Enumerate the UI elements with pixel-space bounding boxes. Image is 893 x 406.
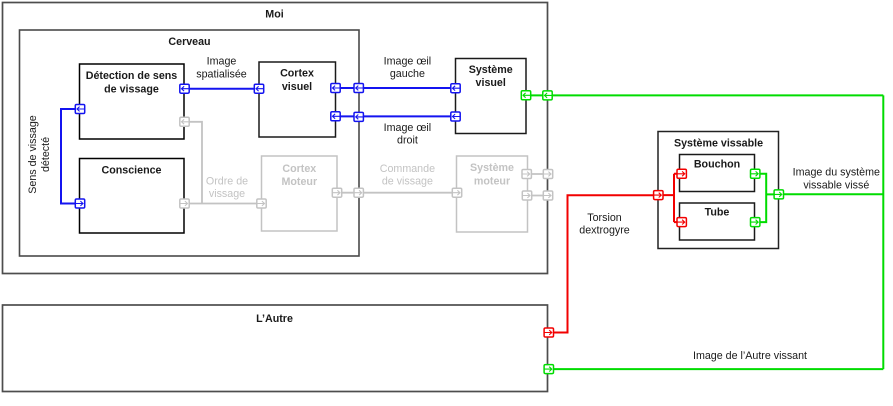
svg-text:Ordre de: Ordre de: [206, 176, 248, 188]
svg-text:Système: Système: [469, 64, 513, 76]
port Systeme moteur left (gray): [452, 188, 461, 197]
port Tube left (red, in): [677, 218, 686, 227]
wire Sens de vissage detecte (Detection to Conscience): [61, 109, 80, 204]
svg-text:détecté: détecté: [40, 137, 52, 172]
svg-text:Détection de sens: Détection de sens: [86, 70, 178, 82]
port Moi edge gray bottom: [543, 191, 552, 200]
svg-text:dextrogyre: dextrogyre: [579, 225, 630, 237]
wire torsion split to Bouchon and Tube: [658, 174, 681, 222]
svg-text:visuel: visuel: [282, 81, 312, 93]
wire Ordre de vissage (Conscience to Cortex Moteur): [185, 203, 262, 205]
box Moi: [3, 3, 548, 274]
svg-text:Image du système: Image du système: [793, 167, 880, 179]
port Systeme moteur right top (gray): [522, 170, 531, 179]
wire Image spatialisee (Cortex visuel to Detection): [185, 88, 260, 90]
svg-text:Image œil: Image œil: [384, 122, 432, 134]
box Systeme visuel: [456, 59, 527, 134]
svg-text:Cortex: Cortex: [280, 68, 314, 80]
svg-text:Torsion: Torsion: [587, 212, 622, 224]
svg-text:Sens de vissage: Sens de vissage: [27, 115, 39, 193]
port Cortex visuel right bottom (blue): [331, 112, 340, 121]
wire Image de l'Autre vissant: [549, 368, 884, 370]
svg-text:droit: droit: [397, 134, 418, 146]
wire Bouchon/Tube images join: [755, 174, 779, 222]
svg-text:moteur: moteur: [474, 175, 510, 187]
port Systeme visuel left top (blue): [451, 84, 460, 93]
svg-text:Cerveau: Cerveau: [168, 36, 210, 48]
box Tube: [680, 203, 755, 240]
port Bouchon right (green, out): [751, 169, 760, 178]
svg-text:de vissage: de vissage: [382, 175, 433, 187]
svg-text:Cortex: Cortex: [282, 163, 316, 175]
label Sens de vissage detecte (rotated): [27, 115, 52, 193]
port Systeme vissable right (green): [774, 190, 783, 199]
svg-text:de vissage: de vissage: [104, 83, 159, 95]
port Conscience left (blue, in): [75, 199, 84, 208]
wire Commande de vissage (Cortex Moteur to Systeme moteur): [337, 192, 457, 194]
box Conscience: [80, 159, 185, 234]
box Cerveau: [20, 30, 360, 256]
port Cerveau edge gray: [354, 188, 363, 197]
port Cortex Moteur right (gray): [332, 188, 341, 197]
box Bouchon: [680, 155, 755, 192]
wire branch to Detection (efference copy): [185, 122, 203, 204]
port L'Autre right top (red, out): [544, 328, 553, 337]
svg-text:Tube: Tube: [705, 207, 730, 219]
box Cortex Moteur (inactive): [262, 156, 338, 231]
svg-text:Moi: Moi: [265, 9, 283, 21]
port Systeme visuel left bottom (blue): [451, 112, 460, 121]
svg-text:vissable vissé: vissable vissé: [803, 179, 869, 191]
port Cerveau edge top (blue): [354, 84, 363, 93]
port Detection right bottom (gray): [180, 117, 189, 126]
port Detection left (blue, in): [75, 105, 84, 114]
svg-text:Commande: Commande: [380, 163, 435, 175]
box Cortex visuel: [259, 62, 336, 137]
port Moi edge right (green): [543, 91, 552, 100]
wire Image oeil gauche (Systeme visuel to Cortex visuel): [336, 87, 456, 89]
svg-text:vissage: vissage: [209, 188, 245, 200]
svg-text:Image: Image: [207, 56, 237, 68]
wire Systeme moteur output bottom: [527, 195, 548, 197]
svg-text:spatialisée: spatialisée: [196, 68, 247, 80]
port Bouchon left (red, in): [677, 169, 686, 178]
box Detection de sens de vissage: [80, 64, 185, 139]
svg-text:gauche: gauche: [390, 68, 425, 80]
port Systeme moteur right bottom (gray): [522, 191, 531, 200]
port Moi edge gray top: [543, 170, 552, 179]
svg-text:Moteur: Moteur: [281, 176, 317, 188]
box L'Autre: [3, 305, 548, 392]
wire Torsion dextrogyre (L'Autre to Systeme vissable): [549, 195, 659, 332]
svg-text:Image œil: Image œil: [384, 56, 432, 68]
port Tube right (green, out): [751, 218, 760, 227]
svg-text:Système: Système: [470, 162, 514, 174]
wire Systeme moteur output top: [527, 173, 548, 175]
wire Image oeil droit (Systeme visuel to Cortex visuel): [336, 115, 456, 117]
port Systeme vissable left (red, in): [654, 191, 663, 200]
port Conscience right (gray, out): [180, 199, 189, 208]
port Cortex visuel right top (blue): [331, 84, 340, 93]
port Cerveau edge bottom (blue): [354, 112, 363, 121]
port Cortex visuel left (blue, out): [254, 84, 263, 93]
port Cortex Moteur left (gray): [257, 199, 266, 208]
svg-text:Bouchon: Bouchon: [694, 158, 740, 170]
port Detection right (blue, in): [180, 84, 189, 93]
port Systeme visuel right (green, in): [521, 91, 530, 100]
box Systeme moteur (inactive): [457, 156, 528, 232]
port L'Autre right bottom (green, out): [544, 365, 553, 374]
svg-text:Système vissable: Système vissable: [674, 137, 763, 149]
wire green vertical bus: [882, 95, 884, 369]
box Systeme vissable: [658, 132, 779, 249]
svg-text:Image de l’Autre vissant: Image de l’Autre vissant: [693, 350, 807, 362]
svg-text:L’Autre: L’Autre: [256, 313, 293, 325]
wire Image du systeme vissable visse: [779, 193, 884, 195]
wire Systeme visuel input from right bus: [526, 94, 883, 96]
svg-text:Conscience: Conscience: [102, 164, 162, 176]
svg-text:visuel: visuel: [476, 77, 506, 89]
